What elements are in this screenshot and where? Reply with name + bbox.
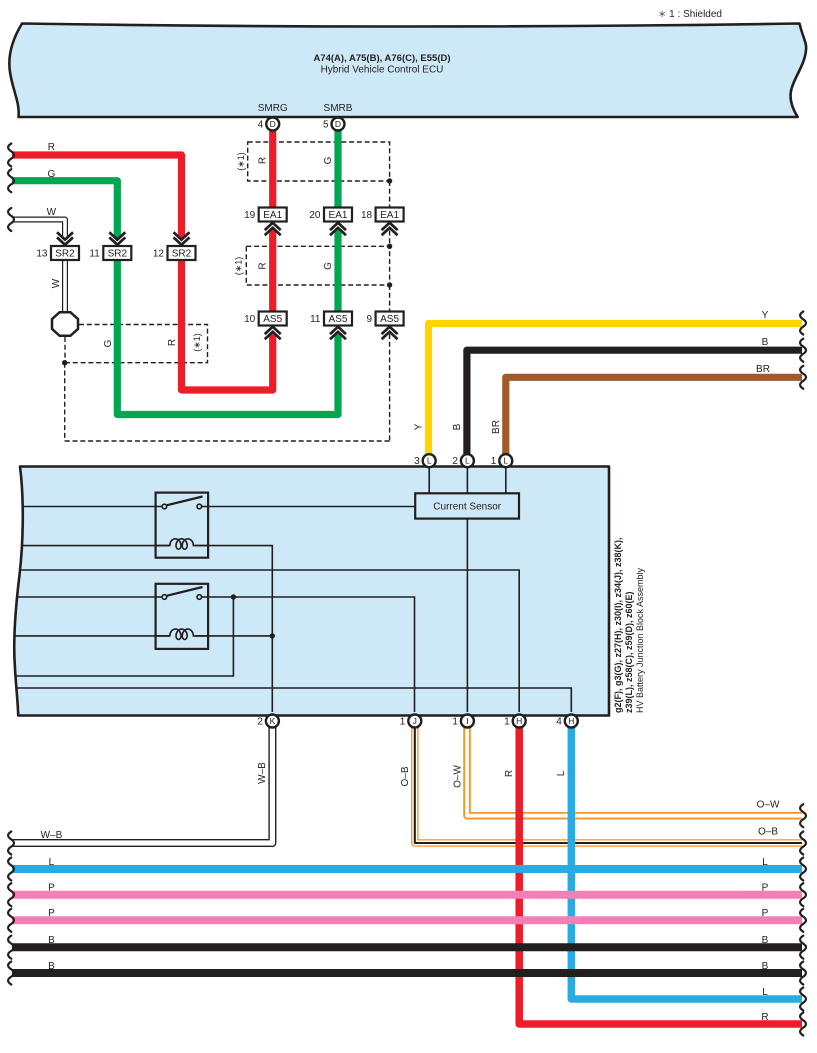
torn end of wire Y [800,312,806,335]
wire G from ECU pin 5D to 20 EA1 [334,127,341,208]
svg-text:Y: Y [762,310,769,321]
svg-text:W–B: W–B [257,762,268,784]
svg-text:R: R [167,339,178,346]
wire pin 2L to current sensor [466,460,468,493]
wire to pin 4H [16,688,572,712]
wire W from left to connector 13 SR2 (double line) [12,220,65,239]
wire O-W from pin 1I to right (orange with white stripe) [467,727,802,816]
svg-text:AS5: AS5 [263,314,282,325]
svg-text:∗ 1 : Shielded: ∗ 1 : Shielded [658,9,722,20]
pin 4 H [565,715,578,728]
svg-text:AS5: AS5 [380,314,399,325]
svg-text:z39(L), z58(C), z59(D), z60(E): z39(L), z58(C), z59(D), z60(E) [624,591,634,713]
ECU pin 4 D (SMRG) [266,118,279,131]
torn end of bottom wire R [800,1013,806,1036]
torn end of wire W-B [8,832,14,855]
junction dot on relay 2 output [231,594,236,599]
svg-text:W: W [51,278,62,288]
chevron under 9 AS5 [382,327,398,334]
svg-text:BR: BR [491,420,502,434]
svg-text:G: G [323,156,334,164]
torn end of wire O-W [800,804,806,827]
chevron under 20 EA1 [330,223,346,230]
svg-text:1: 1 [452,717,458,728]
svg-text:D: D [270,119,276,129]
torn end of wire R [8,144,14,167]
pin 3 L [423,454,436,467]
torn end of wire BR [800,366,806,389]
svg-text:H: H [516,716,522,726]
svg-text:SR2: SR2 [108,248,128,259]
svg-text:19: 19 [244,210,256,221]
wire relay 1 contact to current sensor [208,506,415,508]
svg-text:18: 18 [361,210,373,221]
svg-text:Current Sensor: Current Sensor [433,502,501,513]
ECU pin 5 D (SMRB) [332,118,345,131]
wire G from left to connector 11 SR2 [12,181,117,238]
chevron under 18 EA1 [382,223,398,230]
torn end of wire O-B [800,832,806,855]
wire O-B from pin 1J to right (orange with black stripe) [415,727,802,843]
wire W-B from pin 2K to left (double line) [12,727,272,843]
svg-text:SR2: SR2 [55,248,75,259]
svg-text:5: 5 [323,120,329,131]
wire G from 11 SR2 to connector 11 AS5 [117,260,338,415]
svg-text:L: L [556,770,567,776]
wire into relay 2 contact [17,596,156,598]
wire relay 1 coil to node K [195,546,272,712]
connector 11 SR2 [103,246,131,260]
svg-text:P: P [48,883,55,894]
wire R from pin 1H to bottom right [519,727,802,1024]
svg-text:10: 10 [244,314,256,325]
svg-text:B: B [762,935,769,946]
pin 2 L [461,454,474,467]
svg-text:13: 13 [36,249,48,260]
shield dashed wire from shield box to connector 9 AS5 [389,285,391,312]
chevron above 11 SR2 [109,237,125,244]
svg-text:EA1: EA1 [329,210,348,221]
shield dashed wire from box to connector 18 EA1 [389,181,391,208]
junction dot on K line [270,633,275,638]
svg-text:2: 2 [257,717,263,728]
svg-text:(∗1): (∗1) [236,152,246,171]
wire G from 20 EA1 chevron to 11 AS5 [334,230,341,312]
shield dashed wire from 18 EA1 chevron to lower shield box [389,231,391,247]
bus wire B (black) upper [12,943,802,951]
svg-text:O–B: O–B [400,766,411,786]
svg-text:AS5: AS5 [329,314,348,325]
svg-text:L: L [762,987,768,998]
svg-text:Hybrid Vehicle Control ECU: Hybrid Vehicle Control ECU [321,65,444,76]
shield junction dot below noise filter [62,360,67,365]
wire R from left to connector 12 SR2 [12,155,182,238]
pin 2 K [266,715,279,728]
svg-text:R: R [48,142,55,153]
svg-text:9: 9 [367,314,373,325]
shield dashed drain wire down from noise filter [64,363,66,441]
torn ends of bus wire P upper [8,883,14,906]
bus wire B (black) lower [12,969,802,977]
svg-text:G: G [48,169,56,180]
connector 19 EA1 [259,208,287,222]
relay SMRB (relay 2) [156,584,209,649]
svg-text:G: G [323,262,334,270]
svg-text:B: B [48,961,55,972]
connector 13 SR2 [51,246,79,260]
svg-text:L: L [503,456,508,466]
svg-text:W–B: W–B [41,830,63,841]
shield box (*1) at noise filter around G,R [65,325,208,363]
shield junction dot lower right of lower shield box [387,282,392,287]
wire R from ECU pin 4D to 19 EA1 [269,127,276,208]
svg-text:A74(A), A75(B), A76(C), E55(D): A74(A), A75(B), A76(C), E55(D) [313,53,450,64]
shield dashed wire from 9 AS5 chevron down [389,334,391,441]
shield box (*1) around R,G between EA1 and AS5 [246,246,389,285]
wire R from 19 EA1 chevron to 10 AS5 [269,230,276,312]
svg-text:1: 1 [504,717,510,728]
svg-text:L: L [465,456,470,466]
svg-text:L: L [427,456,432,466]
svg-text:L: L [49,857,55,868]
chevron under 10 AS5 [265,327,281,334]
shield dashed drain wire bottom horizontal [65,440,390,442]
svg-text:R: R [258,262,269,269]
svg-text:K: K [270,716,276,726]
pin 1 J [408,715,421,728]
noise filter (shield ground octagon) [52,312,78,336]
shield junction dot upper right of lower shield box [387,244,392,249]
torn end of wire W [8,208,14,231]
svg-text:J: J [413,716,417,726]
svg-text:g2(F), g3(G), z27(H), z30(I),: g2(F), g3(G), z27(H), z30(I), z34(J), z3… [613,537,623,713]
svg-text:1: 1 [400,717,406,728]
svg-text:Y: Y [414,423,425,430]
wire R from 12 SR2 to connector 10 AS5 [182,260,273,390]
svg-text:R: R [504,770,515,777]
svg-text:BR: BR [756,364,770,375]
svg-text:20: 20 [309,210,321,221]
svg-text:11: 11 [89,249,100,260]
bus wire L (blue) [12,865,802,873]
chevron above 12 SR2 [174,237,190,244]
wire into relay 1 coil [22,545,170,547]
connector 9 AS5 [376,312,404,326]
svg-text:O–W: O–W [757,800,780,811]
torn end of wire B [800,339,806,362]
svg-text:3: 3 [414,456,420,467]
svg-text:4: 4 [556,717,562,728]
svg-text:(∗1): (∗1) [233,257,243,276]
svg-text:EA1: EA1 [263,210,282,221]
svg-text:SMRB: SMRB [324,103,353,114]
svg-text:(∗1): (∗1) [192,333,202,352]
svg-text:11: 11 [310,314,321,325]
svg-text:HV Battery Junction Block Asse: HV Battery Junction Block Assembly [635,567,645,713]
svg-text:SMRG: SMRG [258,103,288,114]
svg-text:H: H [568,716,574,726]
connector 12 SR2 [168,246,196,260]
svg-text:O–B: O–B [758,827,778,838]
torn end of bottom wire L [800,988,806,1011]
wire relay 2 contact to pin 1J [208,597,414,712]
wire current sensor to pin 1I [466,519,468,712]
svg-text:1: 1 [491,456,497,467]
svg-text:P: P [48,908,55,919]
svg-text:O–W: O–W [453,765,464,788]
current sensor U1 [415,493,519,518]
pin 1 H [513,715,526,728]
wire into relay 2 coil [14,635,169,637]
svg-text:W: W [47,207,57,218]
svg-text:P: P [762,908,769,919]
wire Y from battery block pin 3L to right [429,324,803,456]
wire branch from relay 2 output to left [15,597,233,676]
svg-text:4: 4 [258,120,264,131]
Hybrid Vehicle Control ECU block A74/A75/A76/E55 [9,24,806,118]
torn ends of bus wire B upper [8,936,14,959]
HV Battery Junction Block Assembly box [14,467,609,716]
svg-text:B: B [48,935,55,946]
torn end of wire G [8,169,14,192]
pin 1 L [499,454,512,467]
bus wire P (pink) upper [12,891,802,899]
wire W from 13 SR2 to noise filter (double line) [62,260,68,313]
svg-text:I: I [466,716,468,726]
svg-text:R: R [258,157,269,164]
chevron above 13 SR2 [57,237,73,244]
svg-text:P: P [762,883,769,894]
wire pin 1L to current sensor [505,460,507,493]
svg-text:2: 2 [452,456,458,467]
shield box (*1) around R,G between D and EA1 [248,142,390,181]
shield junction dot at EA1 shield branch [387,178,392,183]
svg-text:R: R [761,1012,768,1023]
wire relay 2 coil to node K line [195,635,272,637]
wire into relay 1 contact [22,506,156,508]
torn ends of bus wire B lower [8,962,14,985]
relay SMRG (relay 1) [156,493,209,558]
svg-text:EA1: EA1 [380,210,399,221]
wire L from pin 4H to bottom right [571,727,802,999]
wire to pin 1H [20,570,520,712]
torn ends of bus wire L [8,858,14,881]
connector 18 EA1 [376,208,404,222]
svg-text:G: G [103,339,114,347]
chevron under 11 AS5 [330,327,346,334]
svg-text:B: B [762,337,769,348]
wire pin 3L to current sensor [428,460,430,493]
svg-text:SR2: SR2 [172,248,192,259]
svg-text:L: L [762,857,768,868]
pin 1 I [461,715,474,728]
wire BR from battery block pin 1L to right [506,377,802,455]
bus wire P (pink) lower [12,916,802,924]
svg-text:B: B [452,423,463,430]
connector 11 AS5 [324,312,352,326]
wire B from battery block pin 2L to right [467,350,802,455]
connector 20 EA1 [324,208,352,222]
torn ends of bus wire P lower [8,909,14,932]
svg-text:12: 12 [153,249,165,260]
svg-text:B: B [762,961,769,972]
svg-text:D: D [335,119,341,129]
chevron under 19 EA1 [265,223,281,230]
connector 10 AS5 [259,312,287,326]
